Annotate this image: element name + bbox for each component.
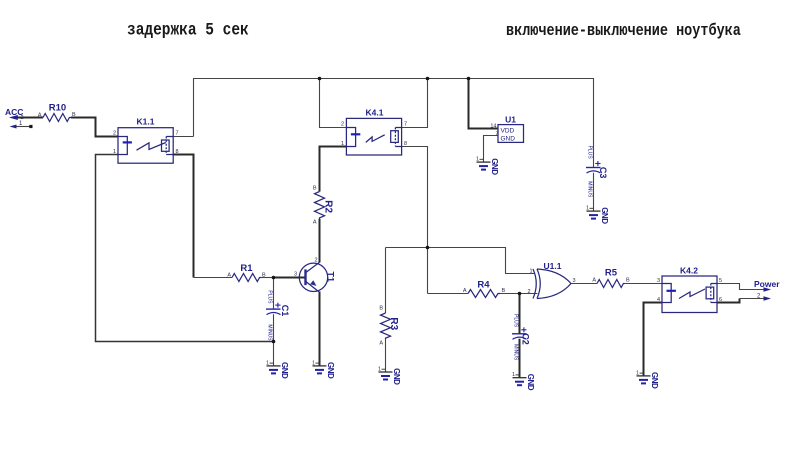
svg-text:7: 7 bbox=[404, 122, 407, 128]
svg-text:U1: U1 bbox=[505, 115, 516, 125]
svg-text:VDD: VDD bbox=[501, 128, 515, 135]
svg-text:включение-выключение ноутбука: включение-выключение ноутбука bbox=[506, 23, 741, 40]
svg-text:B: B bbox=[626, 278, 630, 284]
svg-text:A: A bbox=[313, 220, 317, 226]
svg-text:T1: T1 bbox=[326, 272, 336, 283]
svg-text:C1: C1 bbox=[280, 305, 290, 317]
svg-text:8: 8 bbox=[404, 141, 407, 147]
svg-text:R4: R4 bbox=[477, 280, 490, 291]
svg-text:3: 3 bbox=[573, 278, 576, 284]
svg-text:2: 2 bbox=[527, 289, 530, 295]
svg-text:B: B bbox=[313, 186, 317, 192]
svg-text:B: B bbox=[379, 306, 383, 312]
svg-text:A: A bbox=[463, 288, 467, 294]
svg-text:6: 6 bbox=[719, 297, 722, 303]
svg-text:K1.1: K1.1 bbox=[137, 117, 155, 127]
svg-text:A: A bbox=[592, 278, 596, 284]
svg-text:MINUS: MINUS bbox=[587, 181, 593, 198]
svg-text:7: 7 bbox=[496, 131, 499, 137]
svg-text:B: B bbox=[262, 273, 266, 279]
svg-text:1: 1 bbox=[341, 141, 344, 147]
svg-text:2: 2 bbox=[113, 131, 116, 137]
svg-text:MINUS: MINUS bbox=[267, 324, 273, 341]
svg-text:A: A bbox=[227, 273, 231, 279]
svg-text:задержка 5 сек: задержка 5 сек bbox=[127, 20, 249, 40]
svg-text:R5: R5 bbox=[605, 268, 618, 279]
svg-text:R1: R1 bbox=[240, 263, 253, 274]
svg-text:U1.1: U1.1 bbox=[544, 261, 562, 271]
svg-text:K4.2: K4.2 bbox=[680, 266, 698, 276]
svg-text:GND: GND bbox=[501, 136, 516, 143]
svg-text:C3: C3 bbox=[598, 167, 608, 179]
svg-text:A: A bbox=[379, 341, 383, 347]
svg-text:PLUS: PLUS bbox=[513, 314, 519, 328]
svg-text:R2: R2 bbox=[323, 200, 334, 213]
svg-text:2: 2 bbox=[341, 122, 344, 128]
svg-text:PLUS: PLUS bbox=[267, 290, 273, 304]
svg-text:A: A bbox=[38, 113, 42, 119]
svg-text:3: 3 bbox=[657, 278, 660, 284]
svg-text:1: 1 bbox=[529, 269, 532, 275]
svg-text:Power: Power bbox=[754, 279, 780, 289]
svg-text:7: 7 bbox=[176, 131, 179, 137]
svg-text:8: 8 bbox=[176, 149, 179, 155]
svg-text:C2: C2 bbox=[521, 333, 531, 345]
svg-text:B: B bbox=[72, 112, 76, 118]
svg-text:R3: R3 bbox=[388, 317, 399, 330]
svg-text:R10: R10 bbox=[49, 103, 66, 114]
svg-text:2: 2 bbox=[315, 258, 318, 264]
svg-text:5: 5 bbox=[719, 278, 722, 284]
svg-text:14: 14 bbox=[490, 124, 496, 130]
svg-text:MINUS: MINUS bbox=[513, 344, 519, 361]
svg-text:3: 3 bbox=[294, 272, 297, 278]
svg-text:B: B bbox=[502, 288, 506, 294]
svg-text:1: 1 bbox=[113, 149, 116, 155]
svg-text:PLUS: PLUS bbox=[587, 146, 593, 160]
svg-text:4: 4 bbox=[657, 297, 660, 303]
svg-text:K4.1: K4.1 bbox=[366, 108, 384, 118]
